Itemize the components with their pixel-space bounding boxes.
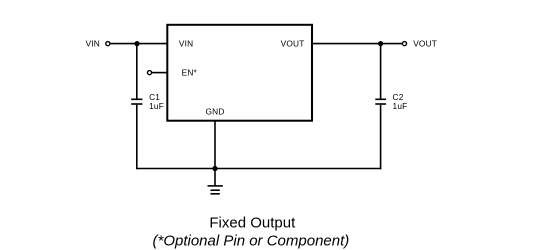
svg-text:VIN: VIN — [86, 39, 100, 49]
svg-text:GND: GND — [205, 107, 224, 117]
svg-text:VOUT: VOUT — [413, 39, 437, 49]
svg-text:VOUT: VOUT — [281, 39, 305, 49]
svg-text:EN*: EN* — [182, 68, 198, 78]
svg-text:1uF: 1uF — [149, 101, 164, 111]
svg-text:1uF: 1uF — [393, 101, 408, 111]
svg-text:Fixed Output: Fixed Output — [209, 215, 296, 232]
svg-text:(*Optional Pin or Component): (*Optional Pin or Component) — [153, 233, 350, 250]
svg-text:VIN: VIN — [179, 39, 193, 49]
